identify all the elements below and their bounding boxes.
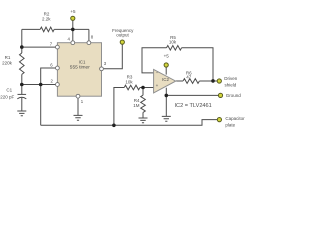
pin 1 circle xyxy=(76,94,80,98)
wire: R3 right lead to op-amp + input xyxy=(140,87,154,89)
capacitor C1 curved plate xyxy=(17,97,26,99)
svg-text:10k: 10k xyxy=(169,39,177,44)
terminal Frequency output xyxy=(120,40,124,44)
junction at op-amp ground xyxy=(165,94,169,98)
svg-text:+: + xyxy=(156,83,159,88)
terminal Capacitor plate xyxy=(217,118,221,122)
wire: pin 7 branch xyxy=(22,46,56,48)
svg-text:47: 47 xyxy=(186,75,192,80)
svg-text:Driven: Driven xyxy=(224,76,238,81)
resistor R3 zigzag xyxy=(124,85,140,90)
svg-text:555 timer: 555 timer xyxy=(70,65,90,71)
svg-text:IC2: IC2 xyxy=(162,77,169,82)
wire: bottom bus to capacitor-plate terminal xyxy=(41,120,218,126)
terminal Ground xyxy=(218,93,222,97)
ground (C1) xyxy=(17,111,26,116)
svg-text:+5: +5 xyxy=(164,54,170,59)
terminal +5 (top) xyxy=(71,16,75,20)
wire: pin 2 branch xyxy=(22,84,56,86)
wire: pins 2/6 node down to bottom bus xyxy=(40,85,42,126)
svg-text:−: − xyxy=(156,71,159,76)
capacitor C1 top plate xyxy=(18,93,27,95)
svg-text:2.2k: 2.2k xyxy=(42,17,51,22)
wire: R5 right lead down to output node xyxy=(182,48,213,81)
555 timer IC1 body xyxy=(57,43,101,96)
pin 7 circle xyxy=(56,45,60,49)
wire: ground junction to Ground terminal xyxy=(166,94,218,96)
pin 2 circle xyxy=(56,83,60,87)
svg-text:plate: plate xyxy=(225,122,235,127)
resistor R4 zigzag xyxy=(141,95,146,112)
wire: pin 3 to frequency-output corner and up to terminal xyxy=(104,44,123,69)
wire: R2 right lead to +5 junction and on to pin-8 corner xyxy=(54,28,89,30)
junction at bus / R3 xyxy=(112,124,116,128)
wire: op-amp - input and R5 feedback loop xyxy=(142,48,167,73)
pin 3 circle xyxy=(100,67,104,71)
junction at pin 6 branch xyxy=(39,83,43,87)
wire: pin 1 to ground xyxy=(77,98,79,115)
wire: R4 bottom lead to ground xyxy=(142,112,144,118)
svg-text:Capacitor: Capacitor xyxy=(225,116,245,121)
wire: left rail from R2 corner down through R1 to C1 xyxy=(21,29,23,94)
wire: pin 6 L-branch xyxy=(41,68,56,85)
junction at +5 / R2 / pin4 xyxy=(71,28,75,32)
ground (IC2 supply) xyxy=(162,116,171,121)
svg-text:+5: +5 xyxy=(70,9,76,14)
resistor R6 zigzag xyxy=(183,79,199,84)
resistor R2 zigzag xyxy=(40,27,54,32)
wire: ground junction down to ground symbol xyxy=(165,95,167,116)
svg-text:IC1: IC1 xyxy=(79,59,86,64)
svg-text:220k: 220k xyxy=(2,61,13,66)
resistor R1 zigzag xyxy=(20,53,25,74)
svg-text:220 pF: 220 pF xyxy=(0,94,14,99)
wire: op-amp output lead xyxy=(176,80,183,82)
wire: R6 to driven-shield terminal xyxy=(199,80,217,82)
terminal Driven shield xyxy=(217,79,221,83)
pin 6 circle xyxy=(56,66,60,70)
svg-text:output: output xyxy=(116,33,129,38)
svg-text:R2: R2 xyxy=(44,11,50,16)
junction at pin 7 branch xyxy=(20,45,24,49)
wire: R2 left lead xyxy=(22,28,40,30)
wire: op-amp negative supply to ground junction xyxy=(165,88,167,96)
svg-text:10k: 10k xyxy=(125,80,133,85)
wire: op-amp +5 power stem xyxy=(165,67,167,74)
svg-text:1M: 1M xyxy=(133,103,140,108)
wire: C1 to ground xyxy=(21,98,23,111)
ground (IC1 pin 1) xyxy=(74,115,83,120)
wire: +5 terminal down to pin 4 xyxy=(72,21,74,41)
svg-text:Ground: Ground xyxy=(226,93,242,98)
svg-text:shield: shield xyxy=(225,82,237,87)
pin 8 circle xyxy=(87,41,91,45)
svg-text:IC2 = TLV2461: IC2 = TLV2461 xyxy=(175,103,212,109)
wire: bus junction up to R3 left lead xyxy=(114,88,124,126)
junction at R6 / R5 / driven shield xyxy=(211,79,215,83)
svg-text:R1: R1 xyxy=(5,55,11,60)
junction at R3 / R4 / + input xyxy=(141,86,145,90)
terminal +5 (op-amp) xyxy=(164,63,168,67)
wire: R4 top lead xyxy=(142,88,144,96)
junction at R1 / C1 / pin 2 xyxy=(20,83,24,87)
pin 4 circle xyxy=(71,41,75,45)
resistor R5 zigzag xyxy=(167,46,182,51)
wire: pin 8 drop xyxy=(88,29,90,41)
op-amp IC2 body xyxy=(154,69,176,93)
svg-text:C1: C1 xyxy=(6,88,12,93)
ground (R4) xyxy=(139,118,148,123)
